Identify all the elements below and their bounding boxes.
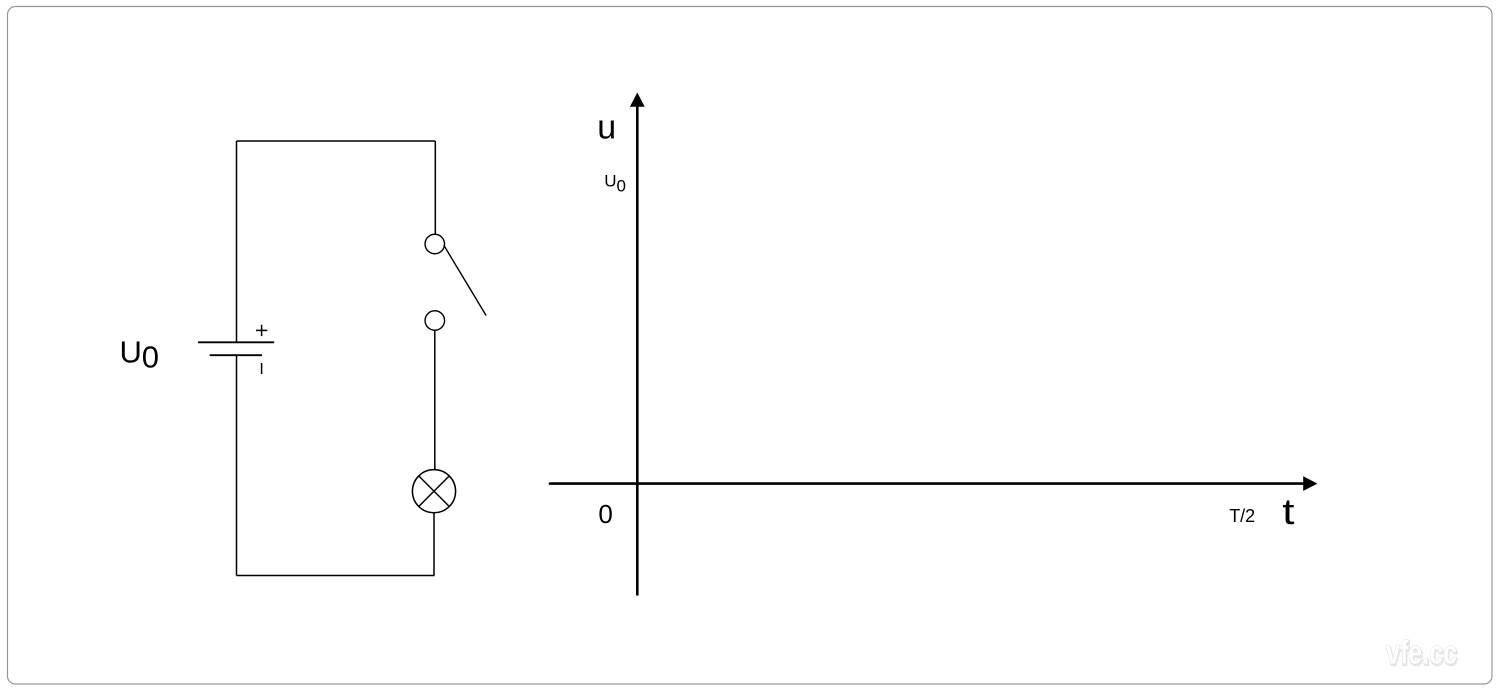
lamp L1 (412, 470, 455, 513)
svg-text:0: 0 (598, 499, 612, 529)
watermark vfe.cc (1386, 634, 1458, 673)
wire left upper (top to battery) (236, 141, 238, 342)
svg-text:u: u (597, 108, 616, 146)
svg-text:U: U (120, 335, 142, 370)
battery B1 top plate (198, 341, 274, 343)
wire right upper (top to switch) (434, 141, 436, 234)
svg-text:U: U (604, 171, 616, 190)
svg-text:vfe.cc: vfe.cc (1386, 634, 1457, 671)
switch S blade (444, 245, 486, 315)
wire lamp to bottom (433, 513, 435, 576)
battery minus label (261, 363, 263, 374)
label U0 (battery value) (120, 335, 160, 375)
switch S terminal top (425, 234, 445, 254)
y-axis arrowhead (630, 93, 645, 107)
battery B1 bottom plate (210, 354, 262, 356)
x-axis arrowhead (1303, 476, 1317, 491)
wire bottom (237, 575, 435, 577)
svg-text:0: 0 (617, 177, 626, 196)
label U0 (y-axis value) (604, 171, 626, 195)
svg-text:0: 0 (142, 340, 159, 375)
x-axis t (550, 482, 1304, 485)
y-axis u (636, 105, 639, 594)
wire switch to lamp (434, 330, 436, 469)
svg-text:t: t (1282, 492, 1294, 532)
switch S terminal bottom (425, 311, 445, 331)
wire top (237, 140, 436, 142)
svg-text:T/2: T/2 (1229, 506, 1255, 526)
wire left lower (battery to bottom) (236, 355, 238, 575)
battery plus label (256, 325, 267, 336)
